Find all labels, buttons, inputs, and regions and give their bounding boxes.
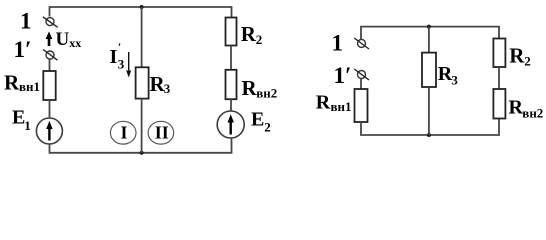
svg-text:R: R (242, 76, 258, 100)
svg-text:I: I (110, 46, 118, 68)
svg-text:I: I (121, 123, 128, 143)
wire: Rвн1 to E1 (49, 100, 51, 118)
svg-text:R: R (4, 71, 20, 95)
svg-text:вн2: вн2 (522, 105, 543, 120)
svg-text:вн2: вн2 (256, 86, 277, 101)
wire: Rвн2 to E2 (230, 99, 232, 111)
arrow: current I3' (126, 52, 131, 78)
wire: R2 to Rвн2 (left circuit) (230, 46, 232, 70)
resistor Rвн2 (left circuit) (226, 70, 237, 99)
resistor Rвн2 (right circuit) (493, 89, 505, 119)
resistor R3 (right circuit) (422, 53, 436, 87)
wire: R3 branch lower (right circuit) (428, 87, 430, 135)
svg-text:′: ′ (118, 42, 121, 54)
terminal 1 (right circuit) (354, 38, 369, 49)
node: junction dot top of R3 branch (140, 5, 144, 9)
svg-text:2: 2 (524, 54, 531, 69)
wire: Rвн1 to bottom + bottom horizontal (right circuit) (361, 119, 499, 136)
terminal 1' (circle with slash) (43, 50, 57, 61)
node: junction dot top of R3 branch (right circuit) (427, 25, 431, 29)
svg-text:1: 1 (20, 9, 32, 34)
svg-text:E: E (251, 108, 264, 130)
wire: top horizontal (right circuit) (361, 27, 499, 40)
wire: R2 to Rвн2 (right circuit) (498, 67, 500, 89)
svg-text:R: R (509, 97, 524, 119)
svg-text:2: 2 (264, 120, 271, 135)
svg-text:3: 3 (164, 81, 171, 96)
svg-text:2: 2 (256, 32, 262, 47)
resistor Rвн1 (right circuit) (355, 89, 368, 122)
wire: top horizontal (left circuit) (50, 7, 232, 18)
node: junction dot bottom of R3 branch (right circuit) (427, 133, 431, 137)
svg-text:1′: 1′ (334, 63, 352, 88)
svg-text:1: 1 (24, 118, 31, 133)
svg-text:R: R (241, 22, 257, 46)
loop label I (circle) (110, 121, 136, 144)
wire: R3 branch upper (left circuit) (141, 7, 143, 67)
source E2 (circle with up arrow) (217, 111, 244, 138)
svg-text:3: 3 (118, 57, 125, 72)
svg-text:R: R (316, 91, 331, 113)
terminal 1' (right circuit) (354, 69, 369, 80)
terminal 1 (circle with slash) (43, 17, 58, 28)
wire: terminal 1' to Rвн1 (right circuit) (360, 79, 362, 90)
svg-text:вн1: вн1 (331, 99, 352, 114)
source E1 (circle with up arrow) (36, 118, 62, 144)
wire: R3 branch lower (left circuit) (141, 99, 143, 153)
resistor Rвн1 (left circuit) (43, 71, 55, 100)
svg-text:вн1: вн1 (19, 79, 40, 94)
svg-text:3: 3 (451, 73, 458, 88)
node: junction dot bottom of R3 branch (140, 151, 144, 155)
resistor R2 (right circuit) (493, 39, 505, 68)
wire: terminal 1' to Rвн1 (49, 59, 51, 71)
loop label II (circle) (148, 121, 174, 144)
wire: E1 to bottom wire (50, 138, 232, 153)
svg-text:1: 1 (332, 31, 344, 56)
svg-text:II: II (155, 123, 169, 143)
resistor R3 (left circuit) (136, 67, 149, 98)
arrow: Uxx voltage arrow (46, 32, 53, 47)
resistor R2 (left circuit) (226, 18, 237, 46)
svg-text:R: R (509, 44, 525, 68)
svg-text:1′: 1′ (14, 37, 32, 62)
wire: R3 branch upper (right circuit) (428, 27, 430, 53)
